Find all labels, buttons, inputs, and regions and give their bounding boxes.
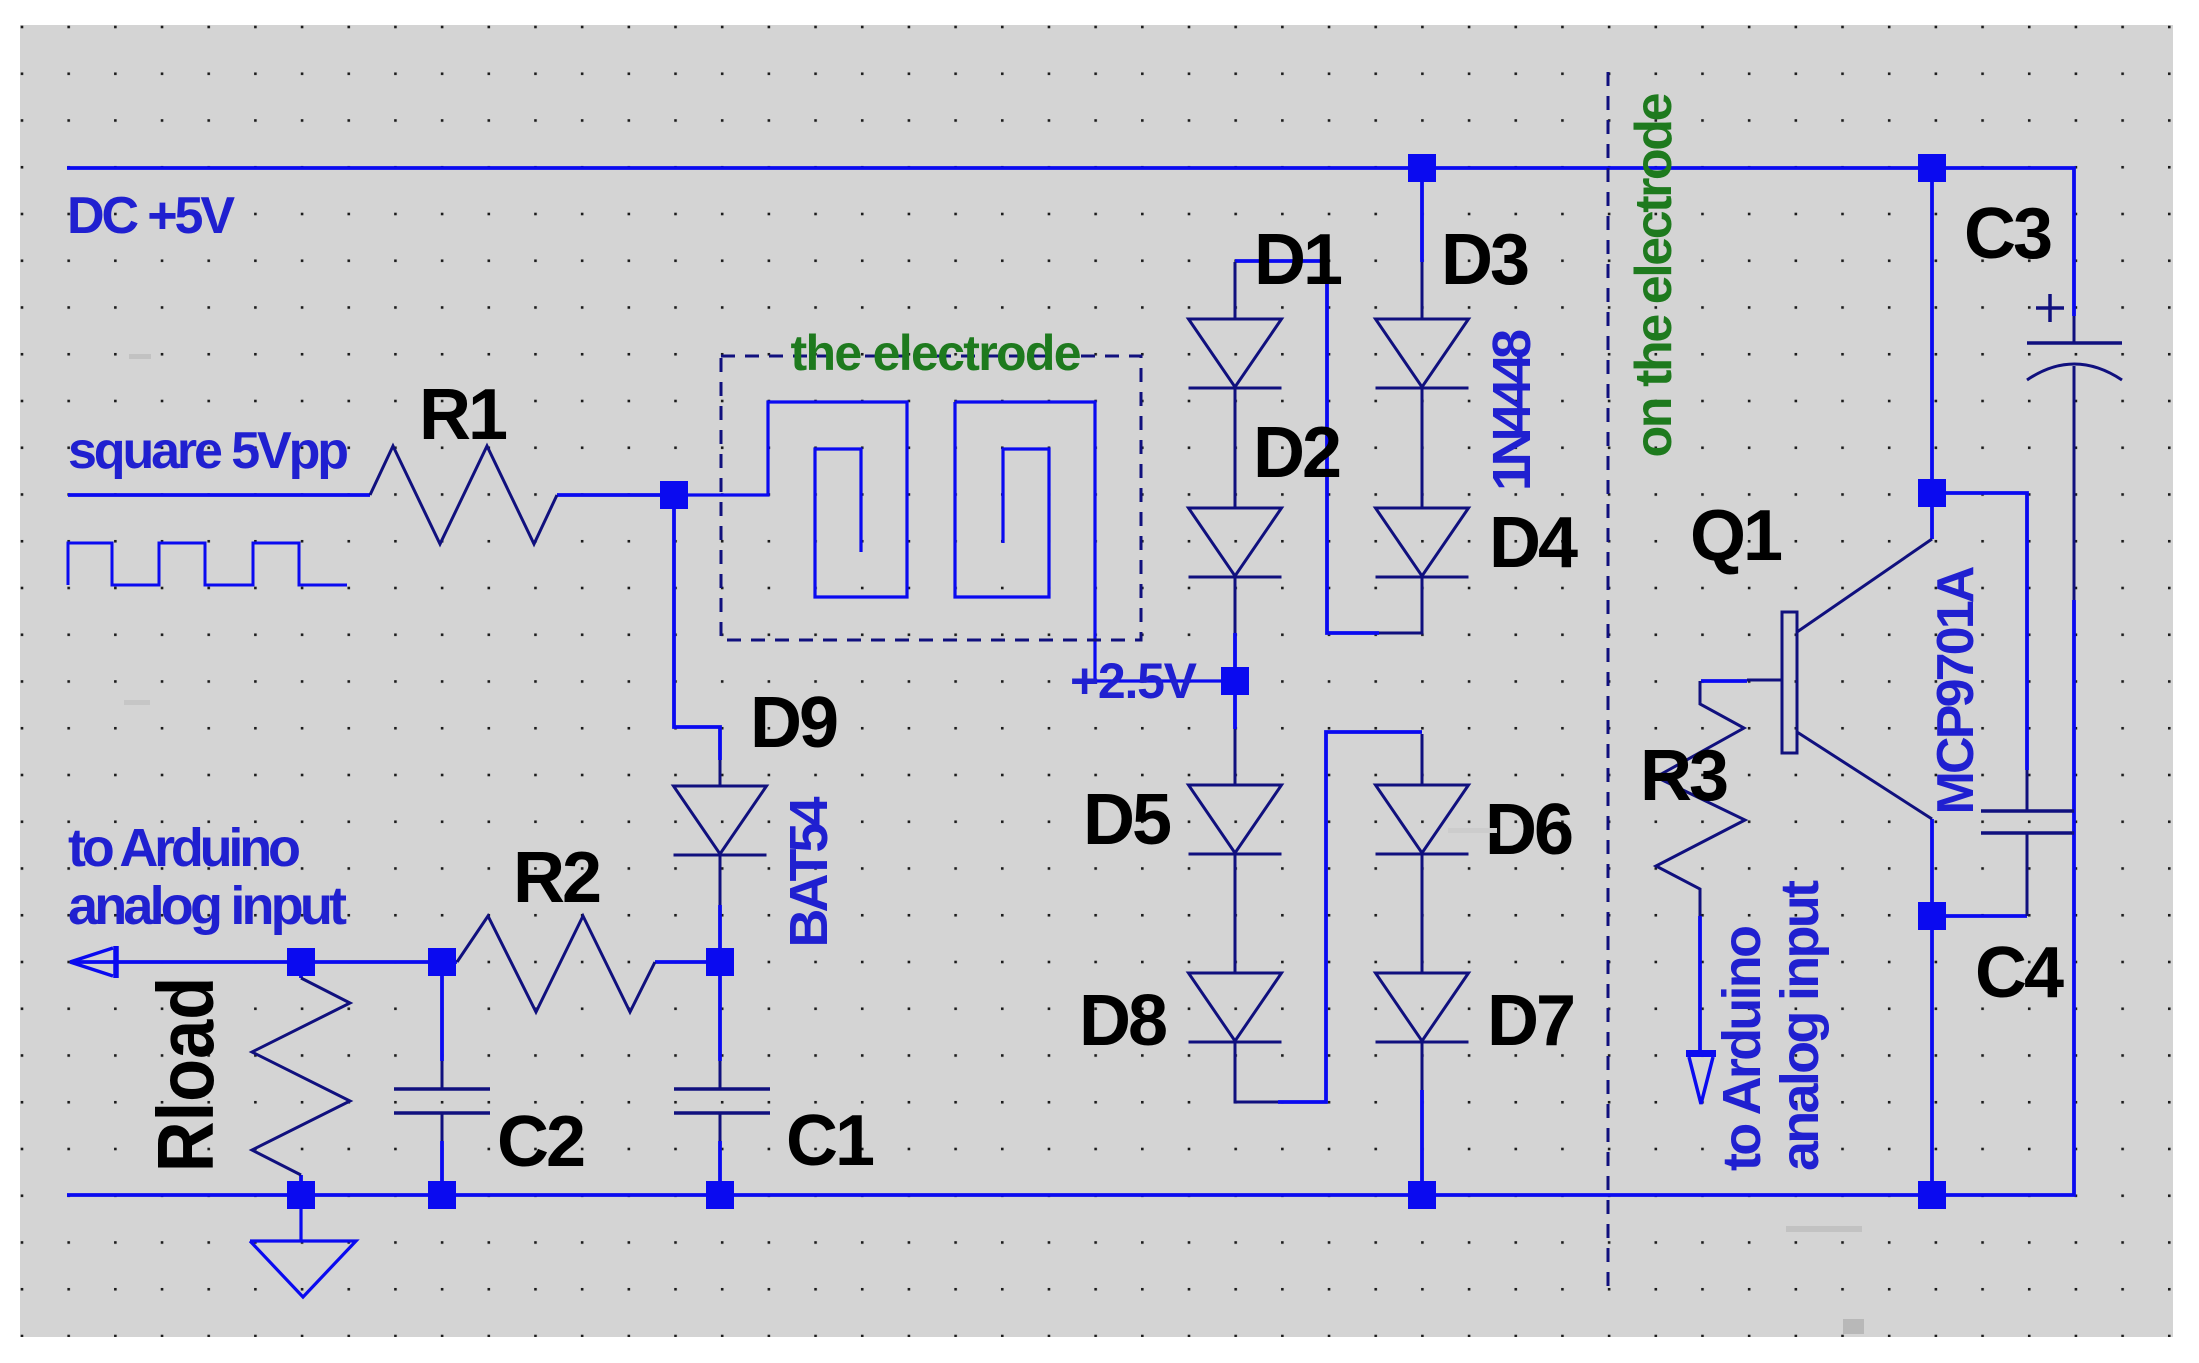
svg-text:C1: C1 — [786, 1101, 874, 1181]
svg-text:C4: C4 — [1975, 933, 2064, 1013]
svg-text:C2: C2 — [497, 1102, 584, 1182]
svg-text:analog input: analog input — [68, 876, 347, 936]
svg-text:1N4448: 1N4448 — [1482, 329, 1542, 491]
svg-text:+2.5V: +2.5V — [1070, 653, 1198, 709]
svg-text:Q1: Q1 — [1690, 496, 1782, 576]
svg-text:D9: D9 — [750, 683, 837, 763]
svg-text:to Arduino: to Arduino — [1712, 925, 1772, 1171]
svg-text:D4: D4 — [1489, 503, 1578, 583]
svg-text:to Arduino: to Arduino — [68, 818, 301, 878]
svg-text:BAT54: BAT54 — [779, 797, 839, 948]
svg-text:R1: R1 — [419, 375, 507, 455]
svg-text:D5: D5 — [1083, 780, 1171, 860]
svg-text:D3: D3 — [1441, 220, 1528, 300]
svg-text:D8: D8 — [1079, 981, 1166, 1061]
svg-text:R3: R3 — [1640, 736, 1727, 816]
svg-text:the electrode: the electrode — [791, 325, 1082, 381]
svg-text:analog input: analog input — [1770, 880, 1830, 1171]
svg-text:on the electrode: on the electrode — [1625, 93, 1683, 458]
svg-text:D7: D7 — [1487, 981, 1573, 1061]
svg-text:D6: D6 — [1485, 790, 1572, 870]
svg-text:D1: D1 — [1254, 220, 1342, 300]
svg-text:Rload: Rload — [141, 977, 230, 1173]
svg-text:DC +5V: DC +5V — [67, 187, 235, 245]
svg-text:square 5Vpp: square 5Vpp — [68, 422, 349, 480]
svg-text:C3: C3 — [1964, 194, 2051, 274]
svg-text:R2: R2 — [513, 838, 600, 918]
svg-text:D2: D2 — [1253, 413, 1340, 493]
svg-text:MCP9701A: MCP9701A — [1927, 566, 1985, 815]
